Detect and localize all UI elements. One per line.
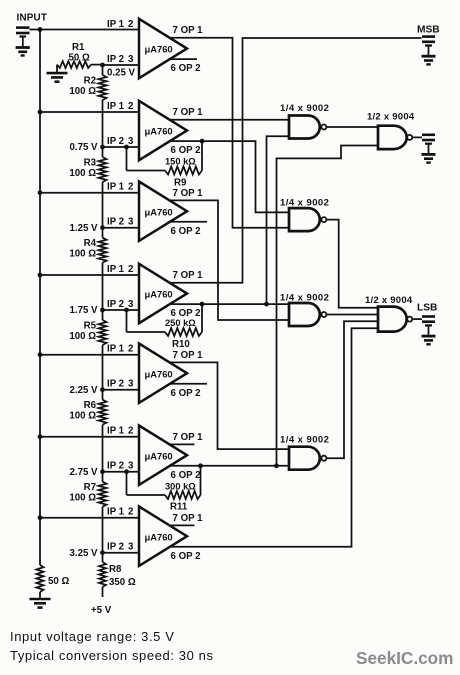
resistor 50ohm bus (37, 565, 70, 592)
svg-text:3: 3 (128, 217, 134, 228)
svg-text:IP 2: IP 2 (107, 299, 124, 310)
svg-text:3.25 V: 3.25 V (69, 548, 98, 559)
wire U6 OP2 to G4 input B (171, 465, 289, 467)
svg-text:IP 2: IP 2 (107, 461, 124, 472)
svg-text:0.25 V: 0.25 V (107, 68, 136, 79)
svg-text:7 OP 1: 7 OP 1 (173, 107, 204, 118)
svg-text:2: 2 (128, 264, 133, 275)
svg-text:6 OP 2: 6 OP 2 (171, 388, 201, 399)
resistor R11 300k feedback (127, 466, 201, 513)
svg-text:1.25 V: 1.25 V (69, 223, 98, 234)
svg-text:2: 2 (128, 101, 133, 112)
svg-text:50 Ω: 50 Ω (48, 576, 69, 587)
svg-text:LSB: LSB (417, 303, 437, 314)
svg-text:7 OP 1: 7 OP 1 (173, 270, 204, 281)
svg-text:μA760: μA760 (145, 368, 173, 379)
node ladder tap 2 (100, 145, 105, 150)
node bus junction 7 (38, 515, 43, 520)
svg-text:IP 2: IP 2 (107, 54, 124, 65)
resistor R2 ladder (69, 65, 106, 147)
wire U7 pin2 branch (40, 517, 139, 519)
node U6 OP2 junction (198, 463, 203, 468)
svg-text:R11: R11 (170, 502, 188, 513)
svg-text:IP 2: IP 2 (107, 136, 124, 147)
gate G3 1/4x9002 (280, 293, 329, 327)
wire G4 output to G6 input C (327, 321, 379, 458)
wire U2 OP2 to G2 input A (171, 141, 289, 212)
svg-text:IP 1: IP 1 (107, 19, 125, 30)
svg-text:Input voltage range: 3.5 V: Input voltage range: 3.5 V (10, 629, 174, 644)
svg-text:R10: R10 (172, 339, 190, 350)
node INPUT terminal (16, 13, 48, 56)
svg-text:6 OP 2: 6 OP 2 (171, 551, 201, 562)
svg-text:μA760: μA760 (145, 289, 173, 300)
wire U4 OP2 trunk to G1 input B (267, 136, 290, 304)
svg-text:SeekIC.com: SeekIC.com (356, 648, 453, 668)
op-amp U4 uA760 (107, 264, 203, 323)
wire U1 OP1 to G2 input B (169, 38, 289, 228)
node U4 OP2 junction (200, 302, 205, 307)
node ladder tap 5 (100, 387, 105, 392)
caption input voltage range (10, 629, 174, 644)
watermark SeekIC.com (356, 648, 453, 668)
caption conversion speed (10, 648, 214, 663)
gate G1 1/4x9002 (280, 103, 329, 139)
svg-text:100 Ω: 100 Ω (69, 249, 96, 260)
svg-text:0.75 V: 0.75 V (69, 142, 98, 153)
node U4 OP2 trunk junction (264, 302, 269, 307)
wire G1 output to G5 input A (327, 126, 379, 128)
wire U4 pin3 (103, 309, 140, 311)
label 1.75 V (69, 305, 98, 316)
wire U4 pin2 branch (40, 274, 139, 276)
svg-text:+5 V: +5 V (91, 605, 112, 616)
resistor R4 ladder (69, 228, 106, 310)
node ladder tap 7 (100, 550, 105, 555)
svg-text:R8: R8 (109, 564, 122, 575)
svg-text:R5: R5 (84, 321, 97, 332)
svg-text:MSB: MSB (417, 25, 440, 36)
svg-text:R4: R4 (84, 238, 97, 249)
wire U5 pin3 (103, 389, 140, 391)
op-amp U1 uA760 (107, 19, 203, 78)
label 1.25 V (69, 223, 98, 234)
svg-text:2: 2 (128, 182, 133, 193)
svg-text:300 kΩ: 300 kΩ (165, 482, 196, 492)
svg-text:6 OP 2: 6 OP 2 (171, 226, 201, 237)
svg-text:6 OP 2: 6 OP 2 (171, 63, 201, 74)
wire U3 pin3 (103, 227, 140, 229)
wire U7 OP1 stub (169, 524, 195, 526)
node ladder tap 1 (100, 63, 105, 68)
node input bus junction (38, 27, 43, 32)
svg-text:1/2 x 9004: 1/2 x 9004 (367, 112, 415, 123)
svg-text:IP 2: IP 2 (107, 217, 124, 228)
svg-text:R7: R7 (84, 482, 96, 493)
node bus junction 3 (38, 190, 43, 195)
wire U3 pin2 branch (40, 192, 139, 194)
resistor R8 350ohm (99, 553, 136, 597)
svg-text:7 OP 1: 7 OP 1 (173, 513, 204, 524)
wire U5 OP2 stub (171, 383, 207, 385)
node U6 OP2 trunk junction (274, 463, 279, 468)
svg-text:IP 2: IP 2 (107, 542, 124, 553)
svg-text:2: 2 (128, 19, 133, 30)
wire G5 output (412, 136, 422, 138)
svg-text:IP 1: IP 1 (107, 182, 125, 193)
svg-text:IP 1: IP 1 (107, 344, 125, 355)
gate G6 1/2x9004 LSB (365, 295, 413, 332)
svg-text:100 Ω: 100 Ω (69, 493, 96, 504)
svg-text:IP 2: IP 2 (107, 379, 124, 390)
wire U5 pin2 branch (40, 354, 139, 356)
node U2 OP2 junction (200, 139, 205, 144)
gate G2 1/4x9002 (280, 198, 329, 232)
node ladder tap 4 (100, 308, 105, 313)
svg-text:IP 1: IP 1 (107, 264, 125, 275)
wire U3 OP2 stub (171, 221, 207, 223)
svg-text:R2: R2 (84, 76, 96, 87)
node U4 pin3 feedback junction (124, 308, 129, 313)
svg-text:100 Ω: 100 Ω (69, 331, 96, 342)
svg-text:1.75 V: 1.75 V (69, 305, 98, 316)
op-amp U6 uA760 (107, 426, 203, 485)
svg-text:6 OP 2: 6 OP 2 (171, 470, 201, 481)
node bus junction 2 (38, 110, 43, 115)
node ladder tap 6 (100, 469, 105, 474)
svg-text:3: 3 (128, 379, 134, 390)
wire U1 pin3 (103, 64, 140, 66)
resistor R6 ladder (69, 390, 106, 472)
op-amp U3 uA760 (107, 182, 203, 241)
node ladder tap 3 (100, 225, 105, 230)
svg-text:2: 2 (128, 507, 133, 518)
wire U6 pin2 branch (40, 436, 139, 438)
svg-text:μA760: μA760 (145, 206, 173, 217)
resistor R1 50ohm (57, 42, 103, 68)
svg-text:2.25 V: 2.25 V (69, 385, 98, 396)
svg-text:μA760: μA760 (145, 44, 173, 55)
wire G2 output to G6 input A (327, 220, 379, 308)
gate G4 1/4x9002 (280, 435, 329, 470)
svg-text:6 OP 2: 6 OP 2 (171, 145, 201, 156)
node bus junction 5 (38, 352, 43, 357)
label 3.25 V (69, 548, 98, 559)
wire U4 OP2 to G3 input A (171, 303, 289, 305)
svg-text:3: 3 (128, 542, 134, 553)
wire U5 OP1 to G4 input A (169, 362, 289, 449)
svg-text:3: 3 (128, 299, 134, 310)
svg-text:3: 3 (128, 136, 134, 147)
gate G5 1/2x9004 (367, 112, 415, 150)
wire U4 OP1 to MSB (169, 38, 422, 283)
wire U7 pin3 (103, 552, 140, 554)
wire U2 pin2 branch (40, 111, 139, 113)
resistor R9 150k feedback (127, 141, 203, 188)
svg-text:μA760: μA760 (145, 531, 173, 542)
node bus junction 4 (38, 273, 43, 278)
wire U7 OP2 to G6 input D (171, 328, 378, 547)
node MSB terminal (417, 25, 440, 65)
svg-text:250 kΩ: 250 kΩ (165, 318, 196, 328)
svg-text:7 OP 1: 7 OP 1 (173, 188, 204, 199)
svg-text:1/4 x 9002: 1/4 x 9002 (280, 103, 329, 114)
op-amp U2 uA760 (107, 101, 203, 160)
wire U2 pin3 (103, 146, 140, 148)
node bus junction 6 (38, 434, 43, 439)
wire G6 output to LSB (412, 318, 422, 320)
ground bus bottom (30, 592, 51, 608)
wire input to U1 pin2 (30, 29, 140, 31)
svg-text:R6: R6 (84, 400, 97, 411)
label 2.75 V (69, 467, 98, 478)
wire U6 OP2 trunk to G5 input B (277, 146, 379, 466)
op-amp U7 uA760 (107, 507, 203, 566)
wire input bus vertical (39, 30, 41, 566)
resistor R7 ladder (69, 472, 106, 553)
label 0.75 V (69, 142, 98, 153)
resistor R3 ladder (69, 147, 106, 228)
svg-text:7 OP 1: 7 OP 1 (173, 25, 204, 36)
svg-text:INPUT: INPUT (17, 13, 48, 24)
node U6 pin3 feedback junction (124, 469, 129, 474)
wire U2 OP1 to G1 input A (169, 119, 289, 121)
svg-text:1/2 x 9004: 1/2 x 9004 (365, 295, 413, 306)
wire U6 OP1 stub (169, 443, 195, 445)
node +5V (91, 605, 112, 616)
svg-text:IP 1: IP 1 (107, 101, 125, 112)
svg-text:150 kΩ: 150 kΩ (165, 157, 196, 167)
svg-text:7 OP 1: 7 OP 1 (173, 350, 204, 361)
svg-text:1/4 x 9002: 1/4 x 9002 (280, 435, 329, 446)
op-amp U5 uA760 (107, 344, 203, 403)
svg-text:IP 1: IP 1 (107, 426, 125, 437)
node G5 output terminal (422, 135, 436, 163)
svg-text:100 Ω: 100 Ω (69, 411, 96, 422)
svg-text:3: 3 (128, 461, 134, 472)
resistor R10 250k feedback (127, 304, 203, 350)
svg-text:3: 3 (128, 54, 134, 65)
svg-text:2: 2 (128, 426, 133, 437)
svg-text:IP 1: IP 1 (107, 507, 125, 518)
svg-text:R1: R1 (72, 42, 85, 53)
node U2 pin3 feedback junction (124, 145, 129, 150)
wire U1 OP2 stub (171, 58, 197, 60)
svg-text:μA760: μA760 (145, 450, 173, 461)
wire G3 output to G6 input B (327, 314, 379, 316)
svg-text:100 Ω: 100 Ω (69, 86, 96, 97)
svg-text:μA760: μA760 (145, 126, 173, 137)
wire U6 pin3 (103, 471, 140, 473)
ground R1 (47, 65, 68, 82)
svg-text:7 OP 1: 7 OP 1 (173, 432, 204, 443)
svg-text:350 Ω: 350 Ω (109, 577, 136, 588)
svg-text:R9: R9 (174, 178, 187, 189)
label 0.25V (107, 68, 136, 79)
node LSB terminal (417, 303, 437, 345)
resistor R5 ladder (69, 310, 106, 390)
wire U3 OP1 to G3 input B (169, 200, 289, 320)
svg-text:Typical conversion speed: 30 n: Typical conversion speed: 30 ns (10, 648, 214, 663)
svg-text:100 Ω: 100 Ω (69, 168, 96, 179)
svg-text:R3: R3 (84, 158, 97, 169)
label 2.25 V (69, 385, 98, 396)
svg-text:2: 2 (128, 344, 133, 355)
svg-text:2.75 V: 2.75 V (69, 467, 98, 478)
